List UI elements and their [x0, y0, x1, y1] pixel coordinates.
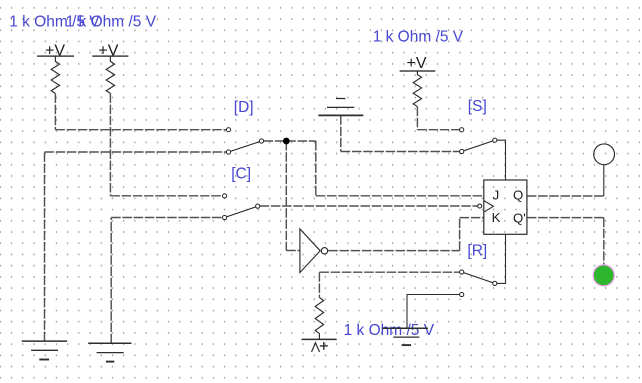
clock triangle	[484, 201, 494, 213]
inverter U2	[300, 229, 328, 273]
resistor R2	[106, 56, 114, 93]
+V supply V2 bar	[92, 55, 128, 57]
svg-text:Q': Q'	[513, 210, 526, 225]
wire R1 to switch D top	[55, 129, 226, 131]
wire ground2 to switch C bottom	[111, 217, 222, 219]
svg-text:[C]: [C]	[231, 165, 251, 182]
wire junction right	[286, 140, 316, 142]
wire R1 lead down	[54, 93, 56, 129]
wire LED1 stub	[603, 165, 605, 196]
svg-text:[D]: [D]	[234, 99, 254, 116]
wire ground1 to switch D bottom	[45, 151, 227, 153]
svg-text:Q: Q	[513, 188, 523, 203]
wire R3 to switch S top	[417, 129, 459, 131]
wire Q output	[527, 195, 604, 197]
wire switch R common to FF R pin	[497, 234, 506, 283]
wire R4 top to switch R	[319, 271, 459, 273]
switch S arm	[462, 140, 495, 151]
plus polarity mark	[320, 342, 328, 350]
svg-text:J: J	[493, 187, 500, 202]
LED2 (on, green)	[593, 265, 614, 286]
resistor R3	[413, 71, 421, 107]
vcc rail (inverted ground)	[318, 99, 363, 116]
wire K input	[460, 217, 484, 219]
svg-text:K: K	[492, 210, 501, 225]
wire down to J row	[315, 141, 317, 196]
wire inverter out to K corner	[328, 250, 459, 252]
wire R4 top lead	[318, 272, 320, 297]
wire inverter input stub	[286, 250, 300, 252]
triangle-wave mark under source	[312, 343, 320, 352]
JK flip-flop U1 box	[478, 180, 527, 234]
+V supply V1 bar	[37, 55, 74, 57]
wire J input	[316, 195, 484, 197]
ground 1	[22, 341, 67, 359]
svg-text:1 k Ohm /5 V: 1 k Ohm /5 V	[373, 28, 464, 45]
wire R2 lead down	[109, 93, 111, 195]
wire R2 to switch C top	[110, 195, 222, 197]
switch S terminals	[460, 128, 497, 154]
wire switch R bottom to ground3	[407, 295, 460, 329]
switch D arm	[229, 141, 262, 152]
junction node	[283, 138, 290, 145]
svg-text:[R]: [R]	[467, 242, 487, 259]
wire Q' down to LED2	[603, 218, 605, 265]
solid wires	[407, 140, 604, 328]
+V supply V3 bar	[400, 70, 436, 72]
voltage source plate under R4	[302, 338, 337, 340]
switch C arm	[225, 206, 258, 217]
wire switch S common to FF S pin	[497, 140, 506, 180]
wire ground1 up	[44, 152, 46, 341]
switch C terminals	[223, 194, 260, 220]
dashed wires	[45, 93, 604, 343]
clock bubble	[478, 204, 482, 208]
wire vcc rail stem	[340, 115, 342, 151]
wire Q' output	[527, 217, 604, 219]
wire junction down to inverter	[285, 141, 287, 251]
svg-text:+V: +V	[98, 43, 118, 60]
switch R arm	[462, 272, 495, 283]
resistor R1	[51, 56, 59, 93]
resistor R4	[315, 298, 323, 340]
switch D terminals	[226, 128, 263, 154]
svg-text:+V: +V	[407, 55, 427, 72]
wire switch C common to clock	[260, 205, 478, 207]
wire vcc rail to switch S bottom	[341, 151, 460, 153]
ground 2	[88, 343, 131, 361]
wire ground2 up	[110, 218, 112, 344]
wire switch D common to junction	[264, 140, 287, 142]
wire R3 lead down	[416, 107, 418, 130]
ground 3	[382, 328, 428, 345]
switch R terminals	[460, 270, 497, 297]
svg-text:[S]: [S]	[468, 98, 487, 115]
svg-text:1 k Ohm /5 V: 1 k Ohm /5 V	[66, 14, 157, 31]
wire up to K row	[459, 218, 461, 251]
LED1 (off)	[594, 144, 615, 165]
svg-text:1 k Ohm /5 V: 1 k Ohm /5 V	[344, 322, 435, 339]
